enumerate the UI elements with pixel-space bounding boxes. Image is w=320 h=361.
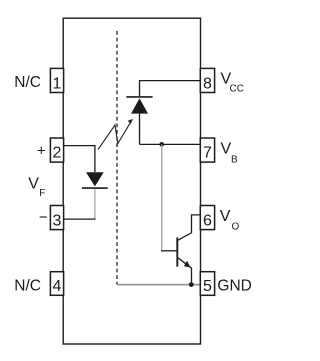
- svg-text:N/C: N/C: [14, 74, 41, 91]
- wire base horizontal: [161, 250, 177, 252]
- wire pin 2 to LED anode: [64, 146, 95, 172]
- svg-text:N/C: N/C: [14, 278, 41, 295]
- label VO: [220, 208, 240, 232]
- wire LED cathode (gray segment): [94, 189, 96, 219]
- wire photodiode anode down: [139, 114, 141, 145]
- svg-text:GND: GND: [217, 278, 251, 295]
- svg-text:V: V: [221, 141, 232, 158]
- junction node at emitter/GND: [189, 282, 194, 287]
- pin 2 box: [50, 138, 63, 162]
- svg-text:CC: CC: [230, 83, 244, 94]
- svg-text:5: 5: [203, 278, 212, 295]
- pin 7 box: [200, 138, 214, 162]
- LED D1 (emitter diode, cathode down): [82, 172, 108, 188]
- pin 5 box: [200, 272, 214, 296]
- label VCC: [221, 71, 244, 95]
- ground rail wire (gray) to pin 5: [118, 284, 201, 286]
- pin 6 box: [200, 206, 214, 230]
- wire pin 8 to photodiode cathode: [140, 81, 201, 97]
- IC package body outline: [63, 18, 200, 344]
- svg-text:1: 1: [53, 75, 62, 92]
- svg-text:F: F: [39, 188, 45, 199]
- svg-text:8: 8: [203, 75, 212, 92]
- svg-text:O: O: [232, 221, 240, 232]
- transistor Q1 collector to pin 6: [177, 215, 200, 241]
- svg-text:−: −: [39, 209, 48, 226]
- transistor Q1 base bar: [176, 237, 178, 266]
- isolation barrier dashed line: [116, 31, 118, 285]
- pin 1 box: [50, 68, 63, 92]
- svg-text:V: V: [220, 208, 231, 225]
- pin 4 box: [50, 272, 63, 296]
- label VF: [28, 175, 45, 199]
- svg-text:B: B: [231, 154, 238, 165]
- pin 3 box: [50, 206, 63, 230]
- junction node at VB wire: [159, 142, 164, 147]
- light emission arrow: [98, 119, 133, 150]
- wire junction to transistor base (gray): [161, 144, 163, 250]
- wire to pin 7 (VB): [140, 143, 201, 145]
- label VB: [221, 141, 239, 166]
- photodiode D2 (cathode up): [126, 97, 152, 114]
- wire to pin 3: [64, 218, 96, 220]
- svg-text:4: 4: [53, 278, 62, 295]
- svg-text:+: +: [37, 143, 46, 160]
- svg-text:7: 7: [203, 145, 212, 162]
- svg-text:2: 2: [53, 144, 62, 161]
- svg-text:3: 3: [53, 212, 62, 229]
- pin 8 box: [200, 68, 214, 92]
- svg-text:V: V: [28, 175, 39, 192]
- transistor Q1 emitter with arrow: [177, 257, 191, 284]
- svg-text:6: 6: [203, 212, 212, 229]
